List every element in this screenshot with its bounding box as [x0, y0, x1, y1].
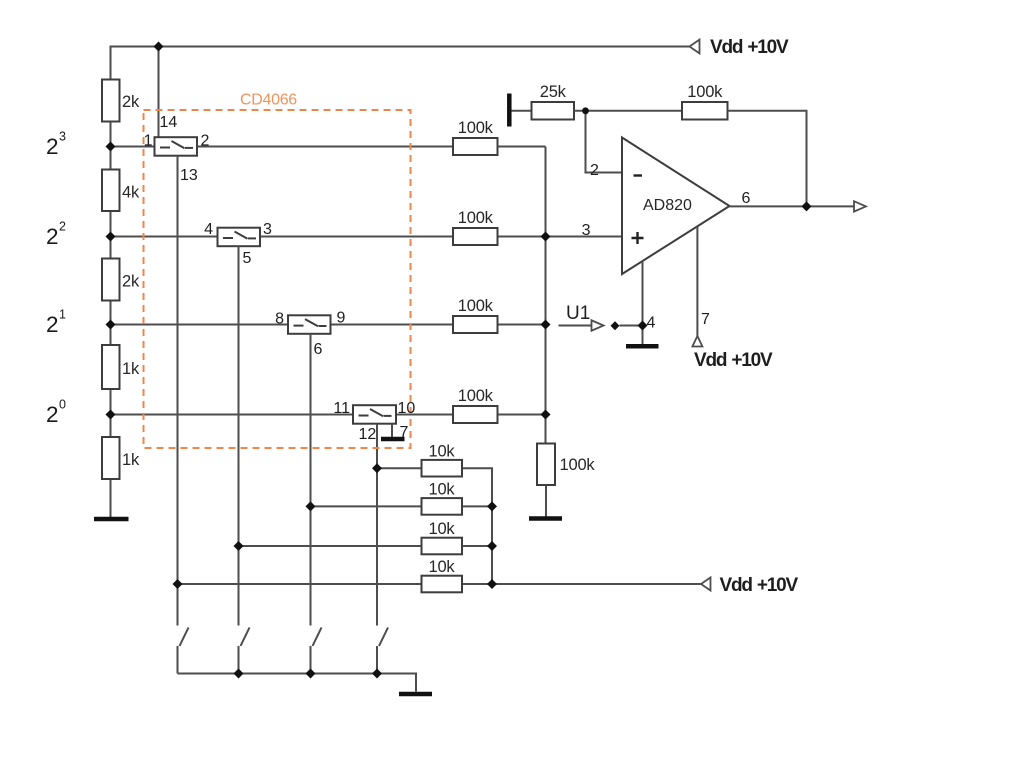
- svg-text:13: 13: [180, 167, 198, 184]
- svg-text:100k: 100k: [687, 83, 723, 101]
- svg-text:AD820: AD820: [643, 197, 692, 214]
- svg-text:100k: 100k: [458, 297, 494, 315]
- svg-text:10k: 10k: [428, 520, 455, 538]
- svg-text:10k: 10k: [428, 558, 455, 576]
- svg-text:7: 7: [400, 424, 409, 441]
- svg-text:U1: U1: [566, 303, 590, 324]
- svg-text:Vdd +10V: Vdd +10V: [710, 37, 789, 58]
- svg-text:2: 2: [59, 220, 66, 234]
- svg-text:2: 2: [201, 133, 210, 150]
- svg-text:1k: 1k: [122, 451, 140, 469]
- svg-text:9: 9: [337, 310, 346, 327]
- svg-text:3: 3: [59, 130, 66, 144]
- svg-text:4k: 4k: [122, 184, 140, 202]
- svg-text:3: 3: [582, 222, 591, 239]
- svg-text:0: 0: [59, 398, 66, 412]
- svg-text:2: 2: [46, 134, 59, 159]
- svg-text:8: 8: [275, 311, 284, 328]
- svg-text:4: 4: [647, 315, 656, 332]
- svg-text:1k: 1k: [122, 360, 140, 378]
- svg-text:2: 2: [46, 402, 59, 427]
- svg-text:10k: 10k: [428, 481, 455, 499]
- svg-text:1: 1: [59, 308, 66, 322]
- svg-text:6: 6: [314, 341, 323, 358]
- svg-text:3: 3: [263, 221, 272, 238]
- svg-text:100k: 100k: [560, 456, 596, 474]
- svg-text:6: 6: [742, 190, 751, 207]
- svg-text:2k: 2k: [122, 273, 140, 291]
- svg-text:Vdd +10V: Vdd +10V: [720, 575, 799, 596]
- svg-text:10: 10: [398, 400, 416, 417]
- svg-text:7: 7: [701, 311, 710, 328]
- svg-text:100k: 100k: [458, 209, 494, 227]
- svg-text:2k: 2k: [122, 93, 140, 111]
- svg-text:CD4066: CD4066: [240, 92, 297, 109]
- svg-text:10k: 10k: [428, 442, 455, 460]
- svg-text:4: 4: [204, 221, 213, 238]
- svg-text:11: 11: [333, 400, 350, 417]
- svg-text:5: 5: [243, 250, 252, 267]
- svg-text:100k: 100k: [458, 387, 494, 405]
- svg-text:25k: 25k: [540, 83, 567, 101]
- svg-text:2: 2: [590, 162, 599, 179]
- svg-text:2: 2: [46, 312, 59, 337]
- svg-text:12: 12: [359, 426, 377, 443]
- svg-text:14: 14: [160, 114, 178, 131]
- svg-text:100k: 100k: [458, 119, 494, 137]
- svg-text:1: 1: [144, 133, 153, 150]
- svg-text:Vdd +10V: Vdd +10V: [694, 350, 773, 371]
- svg-text:2: 2: [46, 224, 59, 249]
